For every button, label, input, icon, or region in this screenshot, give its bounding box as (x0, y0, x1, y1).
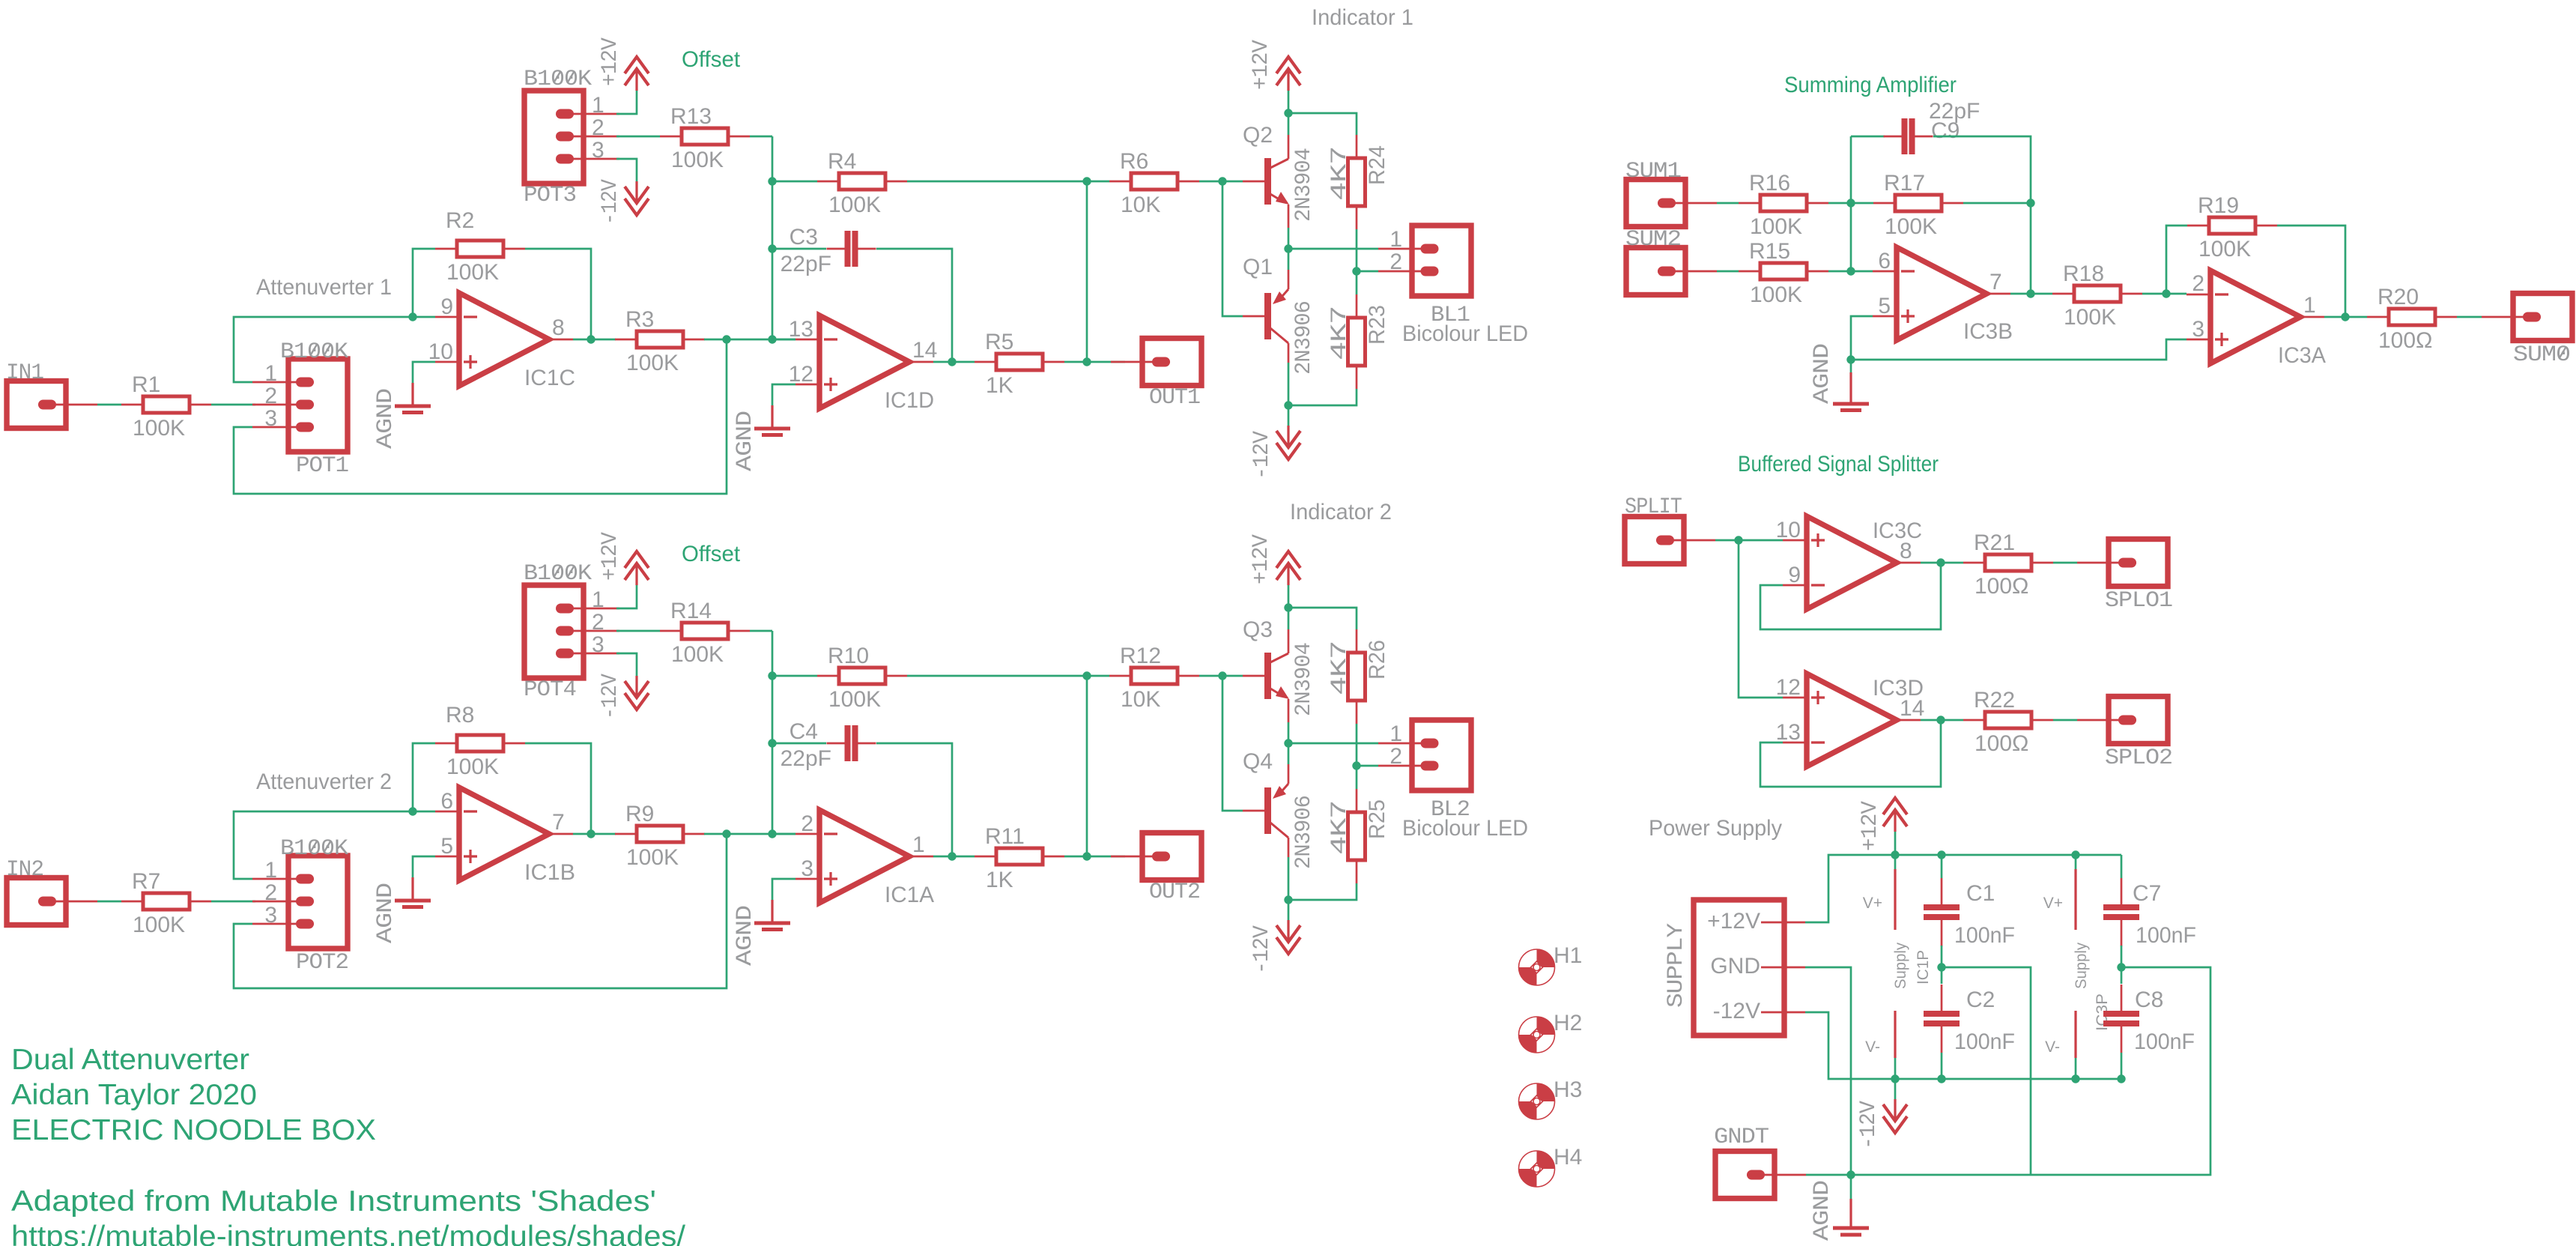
svg-text:Bicolour LED: Bicolour LED (1402, 816, 1528, 841)
svg-text:Buffered Signal Splitter: Buffered Signal Splitter (1738, 452, 1939, 477)
svg-text:10: 10 (1776, 518, 1801, 542)
svg-text:AGND: AGND (1810, 1181, 1835, 1241)
svg-text:R17: R17 (1884, 171, 1925, 196)
wire R17 to IC3B out (2030, 203, 2032, 294)
svg-text:100K: 100K (133, 416, 185, 441)
wire C8 to V- rail (2121, 1053, 2123, 1079)
svg-text:AGND: AGND (733, 411, 758, 471)
wire +12V arrow stem (1894, 832, 1897, 855)
mounting hole H4 (1537, 1151, 1555, 1169)
svg-text:H2: H2 (1554, 1011, 1582, 1035)
svg-text:3: 3 (2192, 317, 2204, 342)
wire R1 to POT1 (211, 404, 255, 406)
mounting hole H3 (1537, 1083, 1555, 1101)
wire IC3D feedback (1760, 720, 1941, 787)
svg-text:Summing Amplifier: Summing Amplifier (1784, 73, 1957, 97)
svg-text:SPLO2: SPLO2 (2105, 746, 2172, 771)
wire C3 right (876, 249, 952, 362)
wire C7 to C8 (2121, 946, 2123, 984)
potentiometer POT4 (524, 585, 584, 678)
svg-text:100K: 100K (671, 642, 724, 667)
wire R7 to POT2 (211, 901, 255, 903)
svg-text:R11: R11 (985, 824, 1025, 849)
wire -12V stem (1288, 900, 1290, 920)
wire column to R17 (1851, 202, 1873, 205)
svg-text:2: 2 (1389, 744, 1402, 769)
wire SUPPLY -12V to rail (1805, 1012, 2121, 1079)
wire Q3 emitter to BL2 pin1 (1288, 722, 1290, 743)
wire IC3A out (2324, 316, 2367, 318)
wire R18 junction to R19 (2166, 226, 2187, 294)
resistor R25 4K7 (1356, 789, 1358, 812)
potentiometer POT1 (288, 359, 348, 452)
wire +12V to Q3 collector (1288, 585, 1290, 629)
svg-text:100Ω: 100Ω (2378, 328, 2432, 353)
wire POT1 pin3 to IC1C out (234, 339, 727, 494)
node BL2 pin2 junction (1352, 761, 1360, 769)
wire R16 to IC3B column (1828, 202, 1851, 205)
node +12V junction (1284, 603, 1292, 611)
resistor R24 4K7 (1356, 135, 1358, 158)
wire C1 to C2 (1941, 946, 1943, 984)
connector OUT1 (1142, 339, 1201, 386)
wire R25 to -12V rail (1288, 883, 1357, 900)
svg-text:GNDT: GNDT (1714, 1125, 1769, 1150)
svg-text:R8: R8 (446, 703, 474, 728)
svg-text:R3: R3 (625, 307, 654, 332)
svg-text:H4: H4 (1554, 1145, 1582, 1170)
svg-text:-12V: -12V (1856, 1101, 1882, 1149)
op-amp IC1B (459, 787, 549, 880)
svg-text:POT4: POT4 (524, 677, 576, 703)
resistor R1 (121, 404, 143, 406)
wire junction to IC1C in- (413, 316, 435, 318)
wire R22 to SPLO2 (2053, 719, 2077, 722)
node IC3B in- junction (1846, 267, 1855, 275)
wire R21 to SPLO1 (2053, 562, 2077, 564)
svg-text:-12V: -12V (598, 179, 623, 225)
supply +12V POT4 (625, 551, 649, 568)
svg-text:+12V: +12V (598, 532, 623, 581)
svg-text:Supply: Supply (1892, 943, 1909, 989)
svg-text:2N3904: 2N3904 (1291, 148, 1317, 222)
node IC1A out junction (948, 852, 956, 860)
supply -12V POT3 (625, 199, 649, 215)
ground AGND summing (1851, 316, 1873, 372)
svg-text:ELECTRIC NOODLE BOX: ELECTRIC NOODLE BOX (11, 1114, 376, 1146)
mounting hole H2 (1537, 1017, 1555, 1035)
wire Q4 emitter (1288, 743, 1290, 764)
svg-text:R26: R26 (1365, 640, 1389, 680)
svg-text:IC1D: IC1D (885, 388, 934, 413)
node BL1 pin2 junction (1352, 267, 1360, 275)
resistor R4 (817, 181, 839, 183)
svg-text:100K: 100K (133, 913, 185, 937)
svg-text:6: 6 (1878, 249, 1891, 273)
svg-text:10K: 10K (1121, 687, 1160, 712)
wire column to R4 (772, 181, 817, 183)
svg-text:Q2: Q2 (1243, 123, 1273, 148)
wire +12V to Q2 collector (1288, 91, 1290, 135)
svg-text:SPLIT: SPLIT (1625, 495, 1682, 520)
op-amp IC3B (1897, 247, 1986, 340)
wire base riser to Q4 (1222, 676, 1243, 811)
svg-text:2N3906: 2N3906 (1291, 301, 1317, 375)
svg-text:-12V: -12V (598, 674, 623, 719)
bicolour LED BL2 (1412, 720, 1471, 790)
transistor Q4 2N3906 (1243, 810, 1264, 812)
wire R17 right (1963, 202, 2031, 205)
capacitor C8 100nF (2121, 985, 2123, 1011)
svg-text:Dual Attenuverter: Dual Attenuverter (11, 1044, 249, 1076)
wire R24 to BL1 pin2 (1356, 229, 1358, 294)
svg-text:B100K: B100K (280, 836, 348, 862)
svg-text:4K7: 4K7 (1327, 801, 1353, 855)
wire IN1 to R1 (97, 404, 121, 406)
svg-text:R22: R22 (1974, 688, 2015, 713)
op-amp IC3D (1807, 674, 1897, 766)
wire column to C3 (772, 248, 826, 250)
wire POT3 pin3 to -12V (616, 159, 637, 181)
resistor R13 (660, 136, 682, 138)
potentiometer POT2 (288, 856, 348, 949)
svg-text:R24: R24 (1365, 145, 1389, 185)
resistor R17 (1873, 202, 1895, 205)
svg-text:100K: 100K (1750, 282, 1802, 307)
svg-text:R4: R4 (828, 149, 856, 174)
svg-text:100K: 100K (446, 260, 499, 285)
svg-text:IC1C: IC1C (524, 366, 575, 390)
connector SPLO2 (2109, 697, 2168, 744)
connector SPLO1 (2109, 539, 2168, 587)
svg-text:7: 7 (1989, 270, 2002, 294)
svg-text:6: 6 (440, 789, 453, 814)
svg-text:R10: R10 (828, 644, 869, 668)
node +12V rail junction 2 (1937, 850, 1945, 859)
connector IN1 (7, 381, 66, 429)
wire IC1A out (933, 856, 975, 858)
wire POT3 pin1 to +12V (616, 91, 637, 114)
capacitor C3 (827, 248, 848, 250)
resistor R7 (121, 901, 143, 903)
svg-text:V-: V- (2045, 1038, 2060, 1056)
wire R11 to OUT2 (1064, 856, 1125, 858)
svg-text:R14: R14 (670, 599, 712, 623)
wire C2 to V- rail (1941, 1053, 1943, 1079)
svg-text:SUPPLY: SUPPLY (1664, 923, 1689, 1008)
svg-text:Indicator 2: Indicator 2 (1290, 500, 1392, 524)
svg-text:5: 5 (440, 834, 453, 859)
wire Q1 collector to -12V (1288, 363, 1290, 405)
node IC3C out junction (1936, 558, 1945, 566)
svg-text:POT1: POT1 (296, 453, 348, 479)
resistor R22 (1963, 719, 1985, 722)
svg-text:Attenuverter 2: Attenuverter 2 (256, 769, 392, 794)
connector IN2 (7, 878, 66, 925)
wire C4 right (876, 743, 952, 856)
supply +12V POT3 (625, 57, 649, 73)
wire Q4 collector to -12V (1288, 857, 1290, 900)
svg-text:1: 1 (264, 858, 277, 883)
svg-text:1: 1 (592, 587, 604, 612)
wire POT4 pin2 to R14 (616, 630, 660, 632)
svg-text:100K: 100K (828, 687, 881, 712)
wire BL1 pin2 (1357, 270, 1378, 273)
node junction C (768, 335, 776, 343)
wire C9 left (1851, 136, 1885, 138)
wire IC3C out (1921, 562, 1963, 564)
node IC1B in- junction (408, 807, 416, 815)
wire +12V rail to R26 (1288, 608, 1357, 629)
svg-text:C3: C3 (790, 225, 818, 249)
svg-text:10: 10 (428, 339, 453, 364)
node R6 left junction (1082, 671, 1091, 680)
svg-text:Power Supply: Power Supply (1649, 816, 1782, 841)
svg-text:2: 2 (592, 115, 604, 140)
node Q3 base junction (1218, 671, 1226, 680)
svg-text:R5: R5 (985, 330, 1013, 354)
wire riser R5 to R6 (1086, 181, 1088, 362)
node C7-C8 junction (2117, 963, 2125, 971)
wire POT4 pin3 to -12V (616, 653, 637, 676)
svg-text:IC3A: IC3A (2278, 343, 2326, 368)
wire R4 right (907, 181, 1087, 183)
node output junction A (587, 829, 595, 838)
wire C9 right (1933, 136, 2031, 203)
wire SUM1 to R16 (1717, 202, 1739, 205)
svg-text:Q4: Q4 (1243, 749, 1273, 774)
resistor R5 (975, 361, 996, 363)
wire POT1 pin1 to op-amp IC1C in- (234, 317, 413, 382)
wire R14 to column (750, 630, 772, 632)
wire R4-junction to R12 (1087, 675, 1109, 677)
svg-text:2: 2 (2192, 271, 2204, 296)
supply +12V indicator 1 (1276, 57, 1300, 73)
svg-text:8: 8 (552, 315, 565, 340)
wire IC3D out (1921, 719, 1963, 722)
svg-text:100K: 100K (2198, 237, 2251, 261)
wire IC3C feedback (1760, 563, 1941, 629)
connector GNDT (1715, 1152, 1775, 1199)
svg-text:4K7: 4K7 (1327, 641, 1353, 695)
node -12V junction (1284, 401, 1292, 409)
svg-text:R15: R15 (1749, 239, 1790, 264)
mounting hole H1 (1537, 949, 1555, 967)
wire R10 right (907, 675, 1087, 677)
wire junction to IC1B in- (413, 811, 435, 813)
transistor Q3 2N3904 (1243, 675, 1264, 677)
svg-text:R21: R21 (1974, 530, 2015, 555)
wire Q1 emitter (1288, 249, 1290, 270)
wire POT3 pin2 to R13 (616, 136, 660, 138)
svg-text:7: 7 (552, 810, 565, 835)
op-amp IC1D (819, 315, 909, 408)
wire SUPPLY GND to AGND (1805, 967, 1851, 1175)
op-amp IC3C (1807, 516, 1897, 609)
svg-text:1K: 1K (986, 868, 1013, 892)
wire riser R11 to R6 (1086, 676, 1088, 856)
svg-text:100K: 100K (626, 845, 679, 870)
wire IC1C out (573, 339, 616, 341)
svg-text:1: 1 (1389, 227, 1402, 252)
node OUT2 junction (1082, 852, 1091, 860)
node SPLIT junction (1734, 536, 1742, 544)
wire BL2 pin1 (1288, 743, 1378, 745)
node BL1 pin1 junction (1284, 244, 1292, 252)
resistor R16 (1739, 202, 1760, 205)
wire R2 left (413, 249, 435, 317)
svg-text:IC3C: IC3C (1873, 518, 1922, 543)
svg-text:R23: R23 (1365, 305, 1389, 345)
svg-text:3: 3 (264, 903, 277, 928)
ground AGND IC1D (772, 384, 795, 405)
wire offset column (772, 631, 774, 834)
node AGND junction (1846, 355, 1855, 363)
svg-text:9: 9 (1788, 563, 1801, 587)
svg-text:100K: 100K (626, 351, 679, 375)
node V- rail junction 2 (1937, 1074, 1945, 1083)
svg-text:2: 2 (1389, 249, 1402, 274)
node IC1C in- junction (408, 312, 416, 321)
connector SUM2 (1626, 248, 1685, 295)
ground AGND IC1C (413, 362, 435, 383)
node R18 junction (2162, 289, 2170, 297)
svg-text:Supply: Supply (2073, 943, 2090, 989)
node column-C4 junction (768, 739, 776, 747)
svg-text:R2: R2 (446, 208, 474, 233)
svg-text:Indicator 1: Indicator 1 (1312, 5, 1413, 30)
svg-text:+12V: +12V (1858, 801, 1883, 851)
wire R9 right (704, 833, 795, 835)
svg-text:3: 3 (264, 406, 277, 431)
node Q2 base junction (1218, 177, 1226, 185)
node GNDT junction (1846, 1170, 1855, 1179)
svg-text:1K: 1K (986, 373, 1013, 398)
ground AGND IC1B (413, 856, 435, 877)
node junction B (722, 829, 730, 838)
svg-text:V+: V+ (2043, 895, 2063, 912)
resistor R15 (1739, 270, 1760, 273)
wire R4-junction to R6 (1087, 181, 1109, 183)
svg-text:AGND: AGND (733, 906, 758, 966)
wire Q2 emitter to BL1 pin1 (1288, 228, 1290, 249)
svg-text:IC1P: IC1P (1915, 950, 1932, 985)
op-amp IC1A (819, 810, 909, 903)
node R17 junction (2026, 199, 2034, 207)
wire -12V stem (1288, 405, 1290, 426)
svg-text:H1: H1 (1554, 943, 1582, 968)
svg-text:Offset: Offset (682, 542, 741, 566)
svg-text:R25: R25 (1365, 799, 1389, 839)
svg-text:100K: 100K (828, 193, 881, 217)
wire BL1 pin1 (1288, 248, 1378, 250)
wire IN2 to R7 (97, 901, 121, 903)
wire base riser to Q1 (1222, 181, 1243, 316)
svg-text:3: 3 (592, 632, 604, 657)
svg-text:+12V: +12V (1249, 40, 1274, 90)
svg-text:B100K: B100K (524, 67, 592, 92)
capacitor C7 100nF (2121, 878, 2123, 904)
svg-text:B100K: B100K (280, 339, 348, 365)
svg-text:100K: 100K (1750, 214, 1802, 239)
svg-text:H3: H3 (1554, 1077, 1582, 1102)
svg-text:IC1A: IC1A (885, 883, 934, 907)
svg-text:R1: R1 (132, 372, 160, 397)
svg-text:C7: C7 (2133, 881, 2161, 906)
node output junction A (587, 335, 595, 343)
node V- rail junction 4 (2117, 1074, 2125, 1083)
node column-R4 junction (768, 177, 776, 185)
svg-text:100K: 100K (1885, 214, 1937, 239)
resistor R23 4K7 (1356, 294, 1358, 318)
svg-text:1: 1 (264, 361, 277, 386)
svg-text:R20: R20 (2378, 285, 2419, 309)
svg-text:C4: C4 (790, 719, 818, 744)
connector SUM1 (1626, 180, 1685, 227)
svg-text:10K: 10K (1121, 193, 1160, 217)
resistor R2 feedback (435, 248, 457, 250)
svg-text:100nF: 100nF (1954, 1029, 2015, 1054)
svg-text:100Ω: 100Ω (1975, 731, 2028, 756)
wire IC1D out (933, 361, 975, 363)
svg-text:AGND: AGND (1810, 344, 1835, 404)
svg-text:SUM2: SUM2 (1625, 227, 1681, 252)
wire AGND to IC3A in+ (1851, 339, 2186, 360)
wire R6 to Q2 base (1199, 181, 1243, 183)
svg-text:3: 3 (592, 138, 604, 163)
node OUT1 junction (1082, 357, 1091, 366)
node V- rail junction 3 (2071, 1074, 2079, 1083)
wire R15 to IC3B (1828, 270, 1873, 273)
svg-text:https://mutable-instruments.ne: https://mutable-instruments.net/modules/… (11, 1221, 685, 1246)
svg-text:12: 12 (1776, 675, 1801, 700)
wire IC3B out (2010, 293, 2052, 295)
wire POT4 pin1 to +12V (616, 585, 637, 608)
ground AGND power (1850, 1175, 1852, 1199)
wire R18 to IC3A (2142, 293, 2186, 295)
wire POT2 pin3 to IC1B out (234, 834, 727, 988)
capacitor C9 22pF (1884, 136, 1905, 138)
node junction C (768, 829, 776, 838)
svg-text:1: 1 (912, 832, 925, 857)
wire SUM2 to R15 (1717, 270, 1739, 273)
node +12V rail junction 3 (2071, 850, 2079, 859)
svg-text:AGND: AGND (373, 389, 398, 449)
wire R3 right (704, 339, 795, 341)
wire R13 to column (750, 136, 772, 138)
svg-text:V-: V- (1865, 1038, 1880, 1056)
supply -12V indicator 2 (1276, 937, 1300, 954)
svg-text:2: 2 (264, 384, 277, 408)
wire C7 top (2121, 855, 2123, 878)
resistor R12 (1109, 675, 1131, 677)
svg-text:OUT1: OUT1 (1149, 385, 1200, 411)
transistor Q1 2N3906 (1243, 315, 1264, 318)
potentiometer POT3 (524, 91, 584, 184)
svg-text:2N3904: 2N3904 (1291, 643, 1317, 716)
resistor R26 4K7 (1356, 629, 1358, 653)
node junction B (722, 335, 730, 343)
node R6 left junction (1082, 177, 1091, 185)
svg-text:R19: R19 (2198, 193, 2239, 218)
svg-text:14: 14 (912, 338, 937, 363)
svg-text:100K: 100K (446, 754, 499, 779)
wire offset column (772, 136, 774, 339)
node IC1D out junction (948, 357, 956, 366)
svg-text:Attenuverter 1: Attenuverter 1 (256, 275, 392, 300)
wire IC1B out (573, 833, 616, 835)
wire C7C8 mid to AGND (1806, 967, 2210, 1175)
